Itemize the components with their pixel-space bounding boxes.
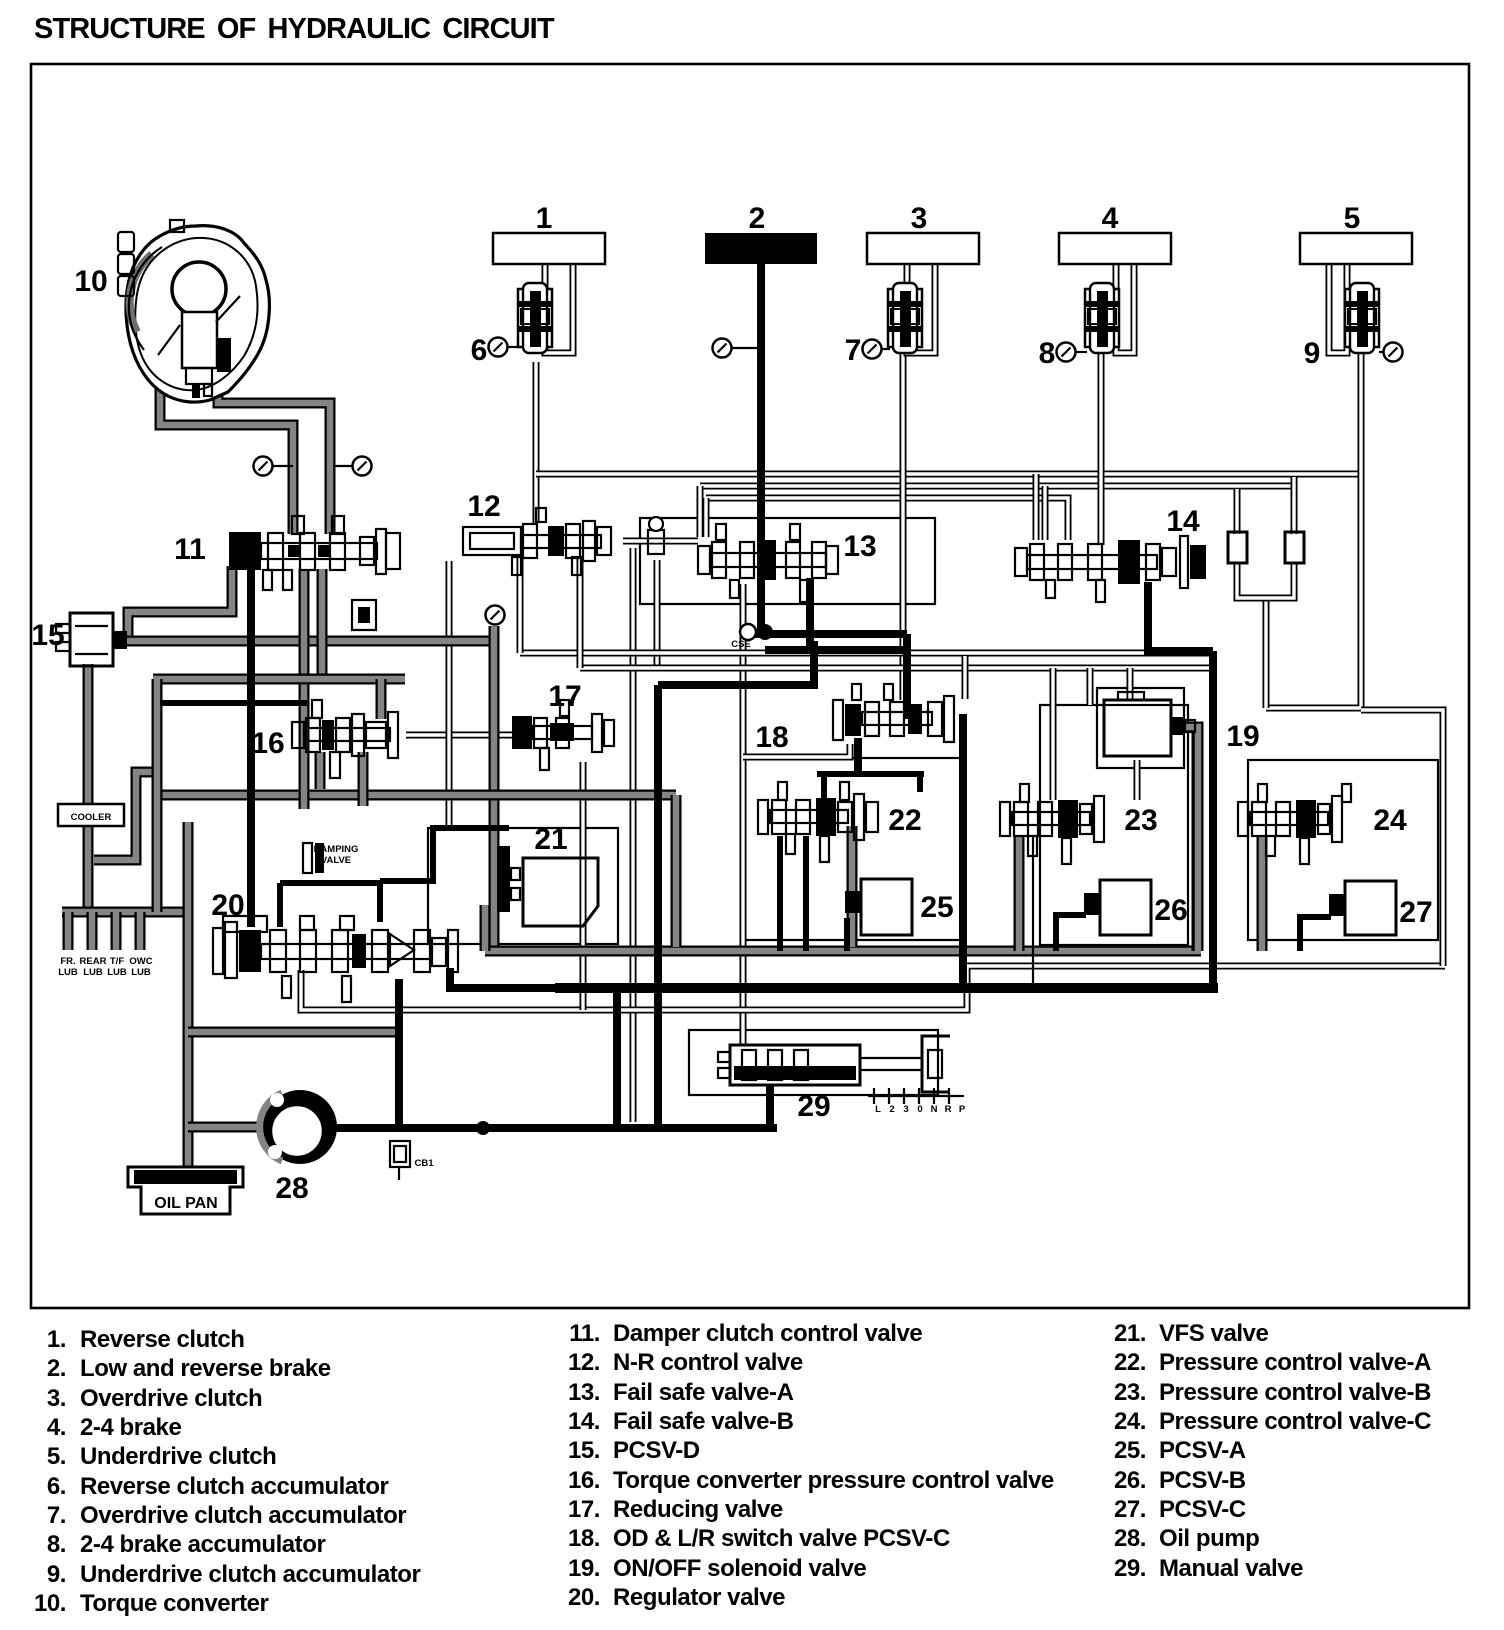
svg-text:27.: 27. xyxy=(1114,1496,1146,1523)
svg-text:19: 19 xyxy=(1226,720,1259,753)
svg-text:8.: 8. xyxy=(47,1531,66,1558)
svg-text:17.: 17. xyxy=(568,1496,600,1523)
svg-text:14.: 14. xyxy=(568,1408,600,1435)
svg-text:28.: 28. xyxy=(1114,1525,1146,1552)
svg-text:Underdrive clutch: Underdrive clutch xyxy=(80,1443,276,1470)
svg-text:5: 5 xyxy=(1344,202,1361,235)
svg-text:7.: 7. xyxy=(47,1502,66,1529)
svg-text:ON/OFF solenoid valve: ON/OFF solenoid valve xyxy=(613,1555,866,1582)
svg-text:28: 28 xyxy=(275,1172,308,1205)
svg-text:Reducing valve: Reducing valve xyxy=(613,1496,783,1523)
svg-text:2-4 brake accumulator: 2-4 brake accumulator xyxy=(80,1531,325,1558)
svg-text:29: 29 xyxy=(797,1090,830,1123)
svg-text:Pressure control valve-A: Pressure control valve-A xyxy=(1159,1349,1431,1376)
svg-text:4: 4 xyxy=(1102,202,1119,235)
svg-text:PCSV-D: PCSV-D xyxy=(613,1437,700,1464)
svg-text:12.: 12. xyxy=(568,1349,600,1376)
svg-text:Manual valve: Manual valve xyxy=(1159,1555,1303,1582)
svg-text:20: 20 xyxy=(211,889,244,922)
svg-text:5.: 5. xyxy=(47,1443,66,1470)
svg-text:16.: 16. xyxy=(568,1467,600,1494)
svg-text:21: 21 xyxy=(534,823,567,856)
svg-text:13.: 13. xyxy=(568,1379,600,1406)
svg-text:Oil pump: Oil pump xyxy=(1159,1525,1259,1552)
svg-text:Pressure control valve-C: Pressure control valve-C xyxy=(1159,1408,1431,1435)
svg-text:2: 2 xyxy=(889,1104,894,1115)
svg-text:STRUCTURE OF HYDRAULIC CIRCUIT: STRUCTURE OF HYDRAULIC CIRCUIT xyxy=(34,13,555,45)
svg-text:Reverse clutch accumulator: Reverse clutch accumulator xyxy=(80,1473,389,1500)
svg-text:Fail safe valve-B: Fail safe valve-B xyxy=(613,1408,794,1435)
svg-text:25.: 25. xyxy=(1114,1437,1146,1464)
svg-text:Damper clutch control valve: Damper clutch control valve xyxy=(613,1320,922,1347)
svg-text:18: 18 xyxy=(755,721,788,754)
svg-text:2: 2 xyxy=(749,202,766,235)
svg-text:R: R xyxy=(945,1104,952,1115)
svg-text:Torque converter pressure cont: Torque converter pressure control valve xyxy=(613,1467,1054,1494)
svg-text:N-R control valve: N-R control valve xyxy=(613,1349,803,1376)
svg-text:CSE: CSE xyxy=(731,639,751,650)
svg-text:23.: 23. xyxy=(1114,1379,1146,1406)
svg-text:14: 14 xyxy=(1166,505,1200,538)
svg-text:PCSV-A: PCSV-A xyxy=(1159,1437,1246,1464)
svg-text:3.: 3. xyxy=(47,1385,66,1412)
svg-text:4.: 4. xyxy=(47,1414,66,1441)
svg-text:Pressure control valve-B: Pressure control valve-B xyxy=(1159,1379,1431,1406)
svg-text:10: 10 xyxy=(74,265,107,298)
svg-text:Underdrive clutch accumulator: Underdrive clutch accumulator xyxy=(80,1561,420,1588)
svg-text:DAMPING: DAMPING xyxy=(314,844,359,855)
svg-text:3: 3 xyxy=(903,1104,908,1115)
svg-text:6: 6 xyxy=(471,334,488,367)
svg-text:Torque converter: Torque converter xyxy=(80,1590,269,1617)
svg-text:6.: 6. xyxy=(47,1473,66,1500)
svg-text:Low and reverse brake: Low and reverse brake xyxy=(80,1355,331,1382)
svg-text:COOLER: COOLER xyxy=(71,812,112,823)
svg-text:N: N xyxy=(931,1104,938,1115)
svg-text:11: 11 xyxy=(174,533,206,566)
svg-text:2-4 brake: 2-4 brake xyxy=(80,1414,181,1441)
svg-text:17: 17 xyxy=(548,680,581,713)
svg-text:FR.: FR. xyxy=(60,956,75,967)
svg-text:1.: 1. xyxy=(47,1326,66,1353)
svg-text:Overdrive clutch accumulator: Overdrive clutch accumulator xyxy=(80,1502,406,1529)
svg-text:LUB: LUB xyxy=(83,967,103,978)
svg-text:21.: 21. xyxy=(1114,1320,1146,1347)
svg-text:24.: 24. xyxy=(1114,1408,1146,1435)
svg-text:18.: 18. xyxy=(568,1525,600,1552)
svg-text:27: 27 xyxy=(1399,896,1432,929)
svg-text:25: 25 xyxy=(920,891,953,924)
svg-text:Fail safe valve-A: Fail safe valve-A xyxy=(613,1379,794,1406)
svg-text:REAR: REAR xyxy=(80,956,107,967)
svg-text:Regulator valve: Regulator valve xyxy=(613,1584,785,1611)
svg-text:11.: 11. xyxy=(569,1320,600,1347)
svg-text:24: 24 xyxy=(1373,804,1407,837)
svg-text:12: 12 xyxy=(467,490,500,523)
svg-text:Overdrive clutch: Overdrive clutch xyxy=(80,1385,262,1412)
svg-text:OD & L/R switch valve PCSV-C: OD & L/R switch valve PCSV-C xyxy=(613,1525,950,1552)
svg-text:15: 15 xyxy=(31,619,64,652)
svg-text:7: 7 xyxy=(845,334,862,367)
svg-text:0: 0 xyxy=(917,1104,922,1115)
svg-text:16: 16 xyxy=(251,727,284,760)
svg-text:VALVE: VALVE xyxy=(321,855,351,866)
svg-text:8: 8 xyxy=(1039,337,1056,370)
svg-text:20.: 20. xyxy=(568,1584,600,1611)
svg-text:9: 9 xyxy=(1304,337,1321,370)
svg-text:29.: 29. xyxy=(1114,1555,1146,1582)
svg-text:OWC: OWC xyxy=(129,956,152,967)
svg-text:VFS valve: VFS valve xyxy=(1159,1320,1268,1347)
svg-text:T/F: T/F xyxy=(110,956,124,967)
svg-text:2.: 2. xyxy=(47,1355,66,1382)
svg-text:OIL PAN: OIL PAN xyxy=(154,1195,217,1212)
svg-text:LUB: LUB xyxy=(58,967,78,978)
svg-text:26.: 26. xyxy=(1114,1467,1146,1494)
svg-text:13: 13 xyxy=(843,530,876,563)
svg-text:1: 1 xyxy=(536,202,553,235)
svg-text:PCSV-C: PCSV-C xyxy=(1159,1496,1246,1523)
svg-text:9.: 9. xyxy=(47,1561,66,1588)
svg-text:LUB: LUB xyxy=(107,967,127,978)
svg-text:LUB: LUB xyxy=(131,967,151,978)
svg-text:Reverse clutch: Reverse clutch xyxy=(80,1326,244,1353)
svg-text:10.: 10. xyxy=(34,1590,66,1617)
svg-text:22.: 22. xyxy=(1114,1349,1146,1376)
svg-text:L: L xyxy=(875,1104,881,1115)
svg-text:15.: 15. xyxy=(568,1437,600,1464)
svg-text:22: 22 xyxy=(888,804,921,837)
svg-text:26: 26 xyxy=(1154,894,1187,927)
svg-text:3: 3 xyxy=(911,202,928,235)
svg-text:19.: 19. xyxy=(568,1555,600,1582)
svg-text:23: 23 xyxy=(1124,804,1157,837)
svg-text:P: P xyxy=(959,1104,966,1115)
svg-text:CB1: CB1 xyxy=(414,1158,434,1169)
svg-text:PCSV-B: PCSV-B xyxy=(1159,1467,1246,1494)
